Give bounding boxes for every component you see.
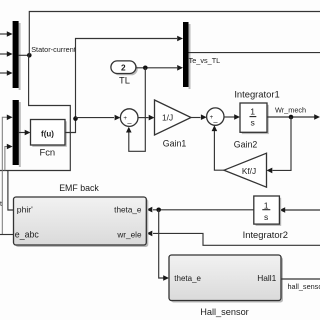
wire Stator-current up and right to edge — [29, 12, 320, 56]
constant TL value 2 — [111, 61, 136, 74]
wire sum1 to Gain1 — [138, 115, 155, 121]
block Integrator1 shadow — [242, 105, 269, 134]
mux bar Te_vs_TL — [183, 22, 189, 87]
wire Wr_mech feedback down to Kf/J — [267, 117, 292, 173]
gain Gain1 triangle 1/J — [155, 100, 192, 135]
block Integrator2 1/s — [254, 196, 280, 224]
wire Te_vs_TL output to right edge — [189, 52, 320, 54]
svg-text:TL: TL — [119, 75, 130, 86]
block EMF back shadow — [16, 199, 149, 247]
node TL junction — [143, 66, 148, 71]
svg-text:it: it — [0, 201, 2, 208]
svg-text:2: 2 — [121, 63, 126, 73]
block Integrator2 shadow — [256, 198, 282, 226]
gain KfJ triangle — [224, 153, 267, 187]
svg-text:Fcn: Fcn — [39, 147, 55, 158]
svg-text:hall_sensor: hall_sensor — [288, 282, 320, 291]
svg-text:Integrator2: Integrator2 — [243, 229, 288, 240]
wire Stator-current down around to left edge — [0, 55, 70, 170]
node Te junction — [73, 116, 78, 121]
svg-text:wr_ele: wr_ele — [116, 230, 142, 239]
wire input2 to mux1 — [0, 51, 13, 57]
block EMF back — [14, 197, 147, 245]
wire e_abc into EMF — [0, 234, 14, 236]
wire Fcn output up to Te mux and to sum1 — [65, 39, 177, 133]
svg-text:Gain1: Gain1 — [163, 139, 187, 149]
wire branch down to phir' — [8, 171, 14, 211]
wire Integrator1 output Wr_mech to right edge — [267, 114, 320, 120]
svg-text:phir': phir' — [17, 205, 33, 215]
svg-text:Wr_mech: Wr_mech — [275, 106, 306, 115]
wire right edge into Integrator2 — [279, 207, 320, 213]
wire left vertical to e_abc and mux2 input1 — [2, 115, 12, 235]
wire Hall1 output to right edge — [281, 278, 320, 280]
wire input3 to mux1 — [0, 70, 13, 76]
wire TL to Te mux — [136, 65, 183, 71]
block Fcn shadow — [32, 121, 67, 147]
wire mux1 output to junction — [19, 54, 30, 56]
block Integrator1 1/s — [240, 103, 267, 132]
mux bar1 — [13, 21, 19, 88]
svg-text:f(u): f(u) — [41, 129, 54, 138]
wire Gain1 to sum2 — [191, 114, 207, 120]
svg-text:1: 1 — [250, 107, 255, 117]
node Stator-current junction — [27, 53, 32, 58]
wire sum2 to Integrator1 — [224, 114, 240, 120]
wire Te to sum1 — [76, 115, 121, 121]
wire KfJ to sum2 bottom — [212, 125, 224, 170]
svg-text:1/J: 1/J — [162, 113, 173, 123]
svg-text:Gain2: Gain2 — [234, 140, 258, 150]
svg-text:Hall_sensor: Hall_sensor — [200, 307, 249, 317]
svg-text:Hall1: Hall1 — [257, 273, 276, 283]
block Hall_sensor — [169, 255, 281, 301]
mux bar2 shadow — [19, 102, 21, 167]
svg-text:s: s — [264, 212, 268, 222]
wire theta_e from Integrator2 to EMF — [147, 207, 254, 213]
wire mux2 output to Fcn — [19, 130, 31, 136]
sum S2 — [207, 108, 224, 127]
mux bar1 shadow — [19, 23, 21, 90]
node Wr_mech junction — [289, 115, 294, 120]
wire mux2 input2 — [5, 144, 13, 171]
svg-text:theta_e: theta_e — [114, 206, 142, 215]
wire input1 to mux1 — [0, 31, 13, 37]
mux bar2 — [13, 100, 19, 165]
svg-text:1: 1 — [264, 200, 269, 210]
svg-text:Te_vs_TL: Te_vs_TL — [189, 56, 221, 65]
svg-text:e_abc: e_abc — [15, 229, 40, 239]
constant TL oval shadow — [113, 63, 138, 76]
svg-text:Kf/J: Kf/J — [242, 166, 256, 176]
svg-text:s: s — [251, 117, 255, 127]
node theta_e junction — [156, 208, 161, 213]
svg-text:theta_e: theta_e — [174, 274, 201, 283]
svg-text:Integrator1: Integrator1 — [234, 88, 279, 99]
block Fcn f(u) — [31, 120, 66, 146]
wire wr_ele from right edge to EMF — [147, 231, 320, 246]
svg-text:EMF back: EMF back — [59, 183, 99, 193]
svg-text:Stator-current: Stator-current — [31, 45, 76, 54]
wire TL down to sum1 — [126, 68, 145, 152]
arrowhead Te into mux — [177, 36, 183, 42]
wire theta_e branch down to Hall_sensor — [159, 210, 169, 281]
sum S1 — [120, 109, 138, 128]
mux bar Te_vs_TL shadow — [189, 24, 191, 89]
block Hall_sensor shadow — [171, 257, 283, 303]
